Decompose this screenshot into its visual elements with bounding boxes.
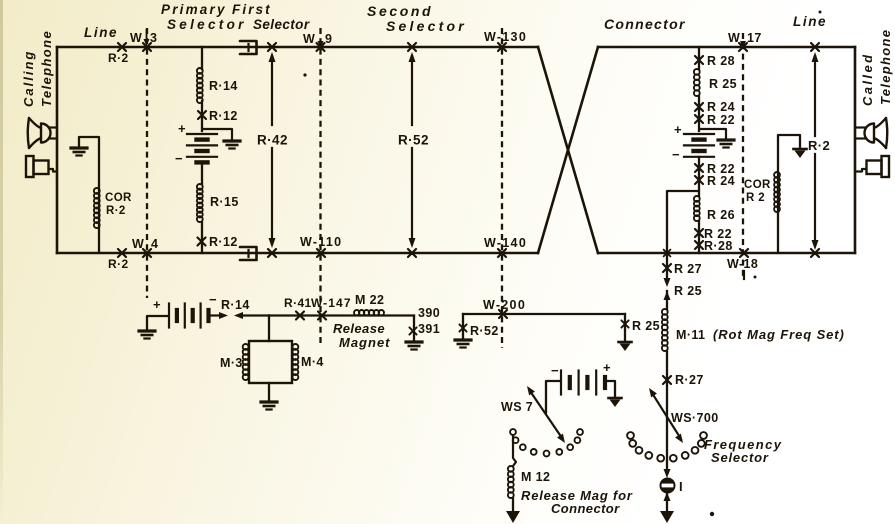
dashed line W-3/W-4: [146, 28, 148, 298]
svg-text:R·2: R·2: [108, 257, 129, 271]
inductor M-3: [243, 344, 249, 380]
contact R-12 (lower): [198, 238, 206, 246]
contact R-28 (top): [695, 56, 703, 64]
contact 391: [409, 327, 416, 334]
contact R-52 (ground): [459, 324, 466, 331]
svg-text:Release: Release: [333, 321, 385, 336]
dashed line W-9/W-147: [319, 28, 321, 345]
contact R-22 (bottom): [695, 229, 703, 237]
junction W-130: [498, 43, 506, 51]
wire bottom bus right: [598, 252, 855, 255]
svg-text:R·27: R·27: [675, 373, 704, 387]
contact R-28 (bottom): [695, 241, 703, 249]
svg-text:W-147: W-147: [311, 296, 352, 310]
ground (WS-7 battery): [609, 398, 622, 407]
ground (release battery): [139, 331, 155, 339]
speck 4: [819, 11, 822, 14]
battery (release): [169, 304, 209, 328]
battery (WS-7): [561, 371, 605, 395]
svg-text:WS·700: WS·700: [671, 411, 719, 425]
wire bank to M-12: [513, 435, 516, 466]
contact R-41: [296, 312, 304, 320]
inductor M-12: [508, 466, 514, 498]
wire M-12 to ground: [512, 498, 514, 512]
svg-text:COR: COR: [744, 179, 771, 191]
wire top bus left: [57, 46, 538, 49]
inductor COR (calling): [94, 188, 100, 228]
svg-text:M·11: M·11: [676, 328, 705, 342]
dash below W-18: [743, 271, 745, 279]
arrow R-52: [411, 56, 413, 125]
svg-text:−: −: [672, 147, 680, 162]
svg-text:Selector: Selector: [711, 450, 769, 465]
contact R-27 (lower): [663, 376, 671, 384]
svg-text:Selector: Selector: [386, 18, 467, 34]
wire COR branch: [79, 137, 99, 253]
transmitter horn (calling): [28, 118, 29, 148]
contact R-27 (upper): [663, 264, 671, 272]
inductor M-11: [662, 309, 668, 351]
junction W-110: [317, 249, 325, 257]
contact R-25 (ground): [621, 320, 628, 327]
wire R-15 to R-12: [201, 222, 203, 253]
svg-text:R·52: R·52: [470, 324, 499, 338]
wire connector chain top: [698, 47, 700, 69]
svg-text:R·15: R·15: [210, 195, 239, 209]
ground arrow (frequency selector): [660, 511, 674, 523]
wire relay to ground: [268, 383, 270, 400]
wire crossing diagonal 1: [538, 47, 598, 253]
wire battery to R-22: [698, 157, 700, 196]
junction W-200: [499, 310, 507, 318]
svg-text:R 25: R 25: [674, 284, 702, 298]
svg-text:First: First: [232, 2, 272, 17]
svg-text:390: 390: [418, 306, 440, 320]
svg-text:W-130: W-130: [484, 30, 527, 44]
contact (R-2 right top): [811, 43, 819, 51]
scanned page left edge: [0, 0, 3, 524]
wire selector to lamp: [664, 469, 671, 478]
ground (R-25): [619, 342, 632, 351]
wire WS-7 battery right: [605, 381, 615, 397]
arrow WS-700: [652, 393, 681, 439]
wire WS-7 battery left: [546, 381, 561, 413]
wire connector battery ground branch: [699, 129, 726, 139]
svg-text:Primary: Primary: [161, 2, 227, 17]
svg-text:M·3: M·3: [220, 356, 243, 370]
wire release row: [269, 314, 414, 316]
svg-text:+: +: [178, 121, 186, 136]
svg-text:R·14: R·14: [221, 298, 250, 312]
svg-text:Called: Called: [860, 53, 875, 106]
transmitter horn (called): [886, 118, 887, 148]
junction W-4: [143, 249, 151, 257]
svg-text:Connector: Connector: [604, 16, 686, 32]
junction M-3 takeoff: [268, 316, 270, 342]
contact R-12 (upper): [198, 111, 206, 119]
svg-text:Connector: Connector: [551, 501, 620, 516]
junction W-140: [498, 249, 506, 257]
junction W-17: [739, 43, 747, 51]
svg-text:−: −: [551, 363, 559, 378]
svg-text:391: 391: [418, 322, 440, 336]
svg-text:Telephone: Telephone: [39, 30, 54, 107]
wire release battery ground: [147, 316, 169, 330]
svg-text:R·14: R·14: [209, 79, 238, 93]
svg-text:R·41: R·41: [284, 296, 312, 310]
receiver (called): [882, 156, 890, 177]
svg-text:R·2: R·2: [108, 51, 129, 65]
svg-text:W: W: [130, 31, 142, 45]
wire lamp to ground: [664, 492, 671, 501]
svg-text:R·12: R·12: [209, 109, 238, 123]
inductor M-4: [293, 344, 299, 380]
arrow WS-7 wiper: [530, 391, 562, 438]
ground (relay M-3/M-4): [261, 402, 277, 410]
speck 3: [754, 276, 757, 279]
ground (R-52): [455, 340, 471, 348]
contact (R-42 top): [268, 43, 276, 51]
svg-text:−: −: [175, 151, 183, 166]
ground (connector battery): [718, 140, 734, 148]
svg-text:WS 7: WS 7: [501, 400, 533, 414]
jack (first selector, top): [247, 44, 249, 51]
svg-text:I: I: [679, 479, 683, 494]
receiver (calling): [26, 156, 34, 177]
plug arrow right: [211, 314, 219, 316]
svg-text:Selector: Selector: [253, 17, 310, 32]
inductor M-22: [354, 310, 384, 315]
svg-text:M 22: M 22: [355, 293, 384, 307]
svg-text:R·12: R·12: [209, 235, 238, 249]
contact R-2 (top left): [118, 43, 126, 51]
wire bottom bus left: [57, 252, 538, 255]
wire R-14 to R-12: [201, 101, 203, 131]
svg-text:R 25: R 25: [709, 77, 737, 91]
battery (first selector): [187, 134, 217, 162]
speck 1: [303, 73, 306, 76]
wire left outer vertical: [56, 47, 59, 253]
svg-text:Telephone: Telephone: [878, 29, 893, 105]
contact R-2 (bottom left): [118, 249, 126, 257]
contact R-22 (mid): [695, 164, 703, 172]
wire M-11 takeoff: [667, 191, 699, 253]
svg-text:R 2: R 2: [746, 192, 765, 204]
svg-text:R·2: R·2: [808, 138, 830, 153]
dashed line W-17/W-18: [742, 33, 744, 280]
svg-text:R 25: R 25: [632, 319, 660, 333]
contact R-24 (lower): [695, 176, 703, 184]
wire R-25 ground drop: [624, 314, 626, 341]
ground (390/391): [406, 342, 422, 350]
svg-text:Selector: Selector: [167, 17, 247, 32]
wire R-26 to R-22: [698, 221, 700, 253]
svg-text:R·2: R·2: [106, 205, 126, 217]
wire battery ground branch: [202, 129, 232, 140]
label Calling Telephone (rotated): [21, 50, 36, 107]
wire R-52 ground drop: [462, 314, 464, 338]
ground arrow (M-12): [506, 511, 520, 523]
junction W-9: [317, 43, 325, 51]
lamp I: [661, 479, 675, 493]
svg-text:M 12: M 12: [521, 470, 550, 484]
svg-text:W-200: W-200: [483, 298, 526, 312]
contact (R-52 bottom): [408, 249, 416, 257]
ground (called loop): [794, 149, 807, 158]
svg-text:17: 17: [747, 31, 762, 45]
svg-text:R 27: R 27: [674, 262, 702, 276]
svg-text:R 24: R 24: [707, 100, 735, 114]
svg-text:(Rot Mag Freq Set): (Rot Mag Freq Set): [713, 327, 845, 342]
relay frame M-3/M-4: [249, 341, 292, 383]
svg-text:9: 9: [325, 32, 332, 46]
speck 2: [710, 512, 714, 516]
svg-text:Line: Line: [793, 14, 827, 29]
junction W-3: [143, 43, 151, 51]
ground (first selector battery): [224, 141, 240, 149]
contact (R-2 right bottom): [811, 249, 819, 257]
svg-text:M·4: M·4: [301, 355, 324, 369]
wire R-14 branch top: [201, 47, 203, 69]
junction chain-bus: [664, 250, 671, 257]
inductor R-25 (connector): [694, 69, 700, 96]
label Called Telephone (rotated): [860, 53, 875, 106]
svg-text:R·52: R·52: [398, 133, 429, 148]
wire crossing diagonal 2: [538, 47, 598, 253]
svg-text:Calling: Calling: [21, 50, 36, 107]
contact (R-42 bottom): [268, 249, 276, 257]
wire right outer vertical: [854, 47, 857, 253]
svg-text:R 24: R 24: [707, 174, 735, 188]
inductor COR (called): [774, 172, 780, 212]
frequency selector bank: [627, 432, 707, 462]
ground (calling loop): [71, 148, 87, 156]
arrow R-2 (called line): [814, 56, 816, 136]
wire battery to R-15: [201, 164, 203, 184]
jack (first selector, bottom): [247, 250, 249, 257]
svg-text:+: +: [153, 297, 161, 312]
svg-text:W-140: W-140: [484, 236, 527, 250]
svg-text:R·42: R·42: [257, 133, 288, 148]
inductor R-26: [694, 196, 700, 221]
svg-text:W-110: W-110: [300, 235, 342, 249]
plug arrow up (R-25): [664, 291, 671, 300]
svg-text:W: W: [303, 32, 315, 46]
contact bank WS-7: [510, 429, 583, 456]
svg-text:Magnet: Magnet: [339, 335, 391, 350]
wire M-11 to R-27: [666, 351, 668, 470]
plug arrow down (R-25): [664, 278, 671, 287]
wire COR branch (called): [778, 135, 800, 253]
inductor R-14: [197, 68, 203, 103]
svg-text:+: +: [603, 360, 611, 375]
dashed line W-130/W-200: [501, 28, 503, 348]
svg-text:Second: Second: [367, 3, 433, 19]
contact R-24 (upper): [695, 103, 703, 111]
svg-text:R·28: R·28: [704, 239, 733, 253]
inductor R-15: [197, 184, 203, 222]
contact (R-52 top): [408, 43, 416, 51]
svg-text:+: +: [674, 122, 682, 137]
svg-text:R 28: R 28: [707, 54, 735, 68]
junction W-147: [318, 312, 326, 320]
svg-text:R 26: R 26: [707, 208, 735, 222]
plug arrow left: [234, 312, 243, 319]
svg-text:W-18: W-18: [727, 257, 758, 271]
junction W-18: [740, 249, 748, 257]
svg-text:4: 4: [151, 237, 158, 251]
svg-text:R 22: R 22: [707, 113, 735, 127]
svg-text:−: −: [209, 292, 217, 307]
wire 390 drop: [413, 316, 415, 342]
wire R-27 from bus: [666, 253, 668, 277]
wire top bus right: [598, 46, 855, 49]
wire R-25 to R-24: [698, 96, 700, 131]
svg-text:Line: Line: [84, 25, 118, 40]
svg-text:COR: COR: [105, 192, 132, 204]
arrow R-42: [271, 56, 273, 125]
contact R-22 (upper): [695, 115, 703, 123]
battery (connector): [684, 134, 714, 157]
wire W-200 row: [463, 313, 625, 315]
